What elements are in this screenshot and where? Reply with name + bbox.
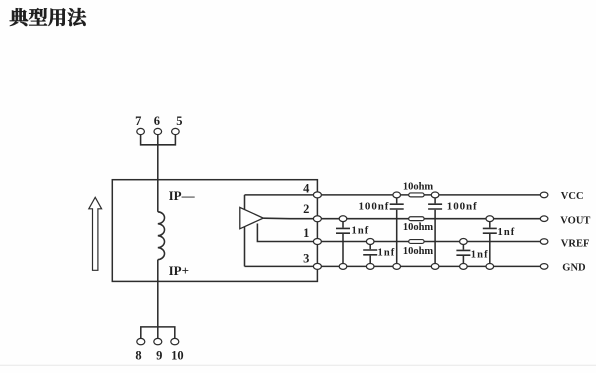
- wire op-amp supply rail: [244, 195, 246, 267]
- wire GND rail: [317, 265, 544, 267]
- svg-text:1: 1: [303, 226, 309, 240]
- pin 1 node: [313, 239, 321, 245]
- node C2 top: [431, 192, 439, 198]
- title 典型用法: [10, 8, 86, 26]
- wire bottom pin bus: [141, 327, 175, 339]
- node C4 top: [366, 239, 374, 245]
- resistor R3 10ohm: [409, 240, 424, 244]
- svg-text:1nf: 1nf: [498, 227, 516, 238]
- wire VOUT rail: [317, 218, 544, 220]
- svg-text:10ohm: 10ohm: [403, 246, 434, 257]
- svg-text:IP+: IP+: [169, 263, 189, 278]
- svg-text:VOUT: VOUT: [560, 216, 590, 227]
- resistor R2 10ohm: [409, 217, 424, 221]
- terminal VREF: [540, 239, 548, 245]
- svg-text:10ohm: 10ohm: [403, 222, 434, 233]
- wire VREF rail: [317, 241, 544, 243]
- wire pin 9 lead: [157, 327, 159, 339]
- resistor R1 10ohm: [409, 193, 424, 197]
- capacitor C1 100nf: [396, 195, 398, 204]
- node C5 top: [460, 239, 468, 245]
- node C3 bottom: [339, 263, 347, 269]
- svg-text:6: 6: [154, 114, 160, 128]
- svg-text:9: 9: [156, 348, 162, 362]
- pin 10 terminal: [171, 338, 179, 344]
- svg-text:8: 8: [135, 348, 141, 362]
- wire coil to bottom pins: [157, 260, 159, 327]
- sensor box U1: [112, 180, 317, 282]
- wire primary vertical through sensor: [157, 180, 159, 212]
- wire VCC rail: [317, 194, 544, 196]
- svg-text:100nf: 100nf: [359, 201, 390, 213]
- node C1 bottom: [393, 263, 401, 269]
- node C1 top: [393, 192, 401, 198]
- pin 5 terminal: [172, 128, 180, 134]
- current direction arrow: [89, 197, 102, 270]
- node C2 bottom: [431, 263, 439, 269]
- svg-text:1nf: 1nf: [352, 225, 370, 236]
- terminal VCC: [540, 192, 548, 198]
- node C3 top: [339, 216, 347, 222]
- capacitor C5 1nf: [462, 242, 464, 250]
- capacitor C6 1nf: [489, 219, 491, 228]
- coil IP primary winding: [158, 212, 165, 260]
- pin 9 terminal: [154, 338, 162, 344]
- svg-text:4: 4: [303, 182, 310, 196]
- pin 3 node: [313, 263, 321, 269]
- svg-text:10ohm: 10ohm: [403, 182, 434, 193]
- svg-text:VCC: VCC: [561, 191, 584, 202]
- svg-text:VREF: VREF: [561, 239, 590, 250]
- svg-text:IP—: IP—: [169, 188, 196, 203]
- svg-text:7: 7: [135, 114, 141, 128]
- svg-text:2: 2: [303, 202, 309, 216]
- node C6 bottom: [486, 263, 494, 269]
- wire op-amp output to pin 2: [263, 217, 317, 220]
- pin 2 node: [313, 216, 321, 222]
- wire top pin bus: [141, 135, 176, 145]
- wire pin 6 lead: [157, 135, 159, 180]
- capacitor C3 1nf: [342, 219, 344, 228]
- wire pin 1: [257, 224, 317, 242]
- pin 8 terminal: [137, 338, 145, 344]
- svg-text:1nf: 1nf: [471, 250, 489, 261]
- capacitor C4 1nf: [369, 242, 371, 250]
- wire pin 4: [245, 194, 318, 196]
- svg-text:3: 3: [303, 251, 309, 265]
- pin 4 node: [313, 192, 321, 198]
- svg-text:5: 5: [176, 114, 182, 128]
- pin 6 terminal: [154, 128, 162, 134]
- pin 7 terminal: [137, 128, 145, 134]
- capacitor C2 100nf: [434, 195, 436, 204]
- svg-text:GND: GND: [562, 262, 586, 273]
- node C5 bottom: [460, 263, 468, 269]
- svg-text:100nf: 100nf: [447, 201, 478, 213]
- svg-text:1nf: 1nf: [378, 247, 396, 258]
- svg-text:10: 10: [171, 348, 184, 362]
- terminal VOUT: [540, 216, 548, 222]
- terminal GND: [540, 264, 548, 270]
- node C4 bottom: [366, 263, 374, 269]
- op-amp U2: [240, 207, 263, 228]
- wire pin 3: [245, 265, 318, 267]
- scan artifact line: [0, 364, 596, 366]
- node C6 top: [486, 216, 494, 222]
